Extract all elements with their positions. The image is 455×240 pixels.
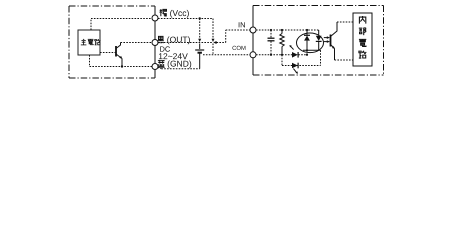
svg-text:(GND): (GND) xyxy=(167,59,192,69)
svg-text:(OUT): (OUT) xyxy=(167,34,191,44)
svg-text:(Vcc): (Vcc) xyxy=(170,8,190,18)
svg-text:IN: IN xyxy=(238,20,246,29)
svg-text:COM: COM xyxy=(232,46,246,52)
